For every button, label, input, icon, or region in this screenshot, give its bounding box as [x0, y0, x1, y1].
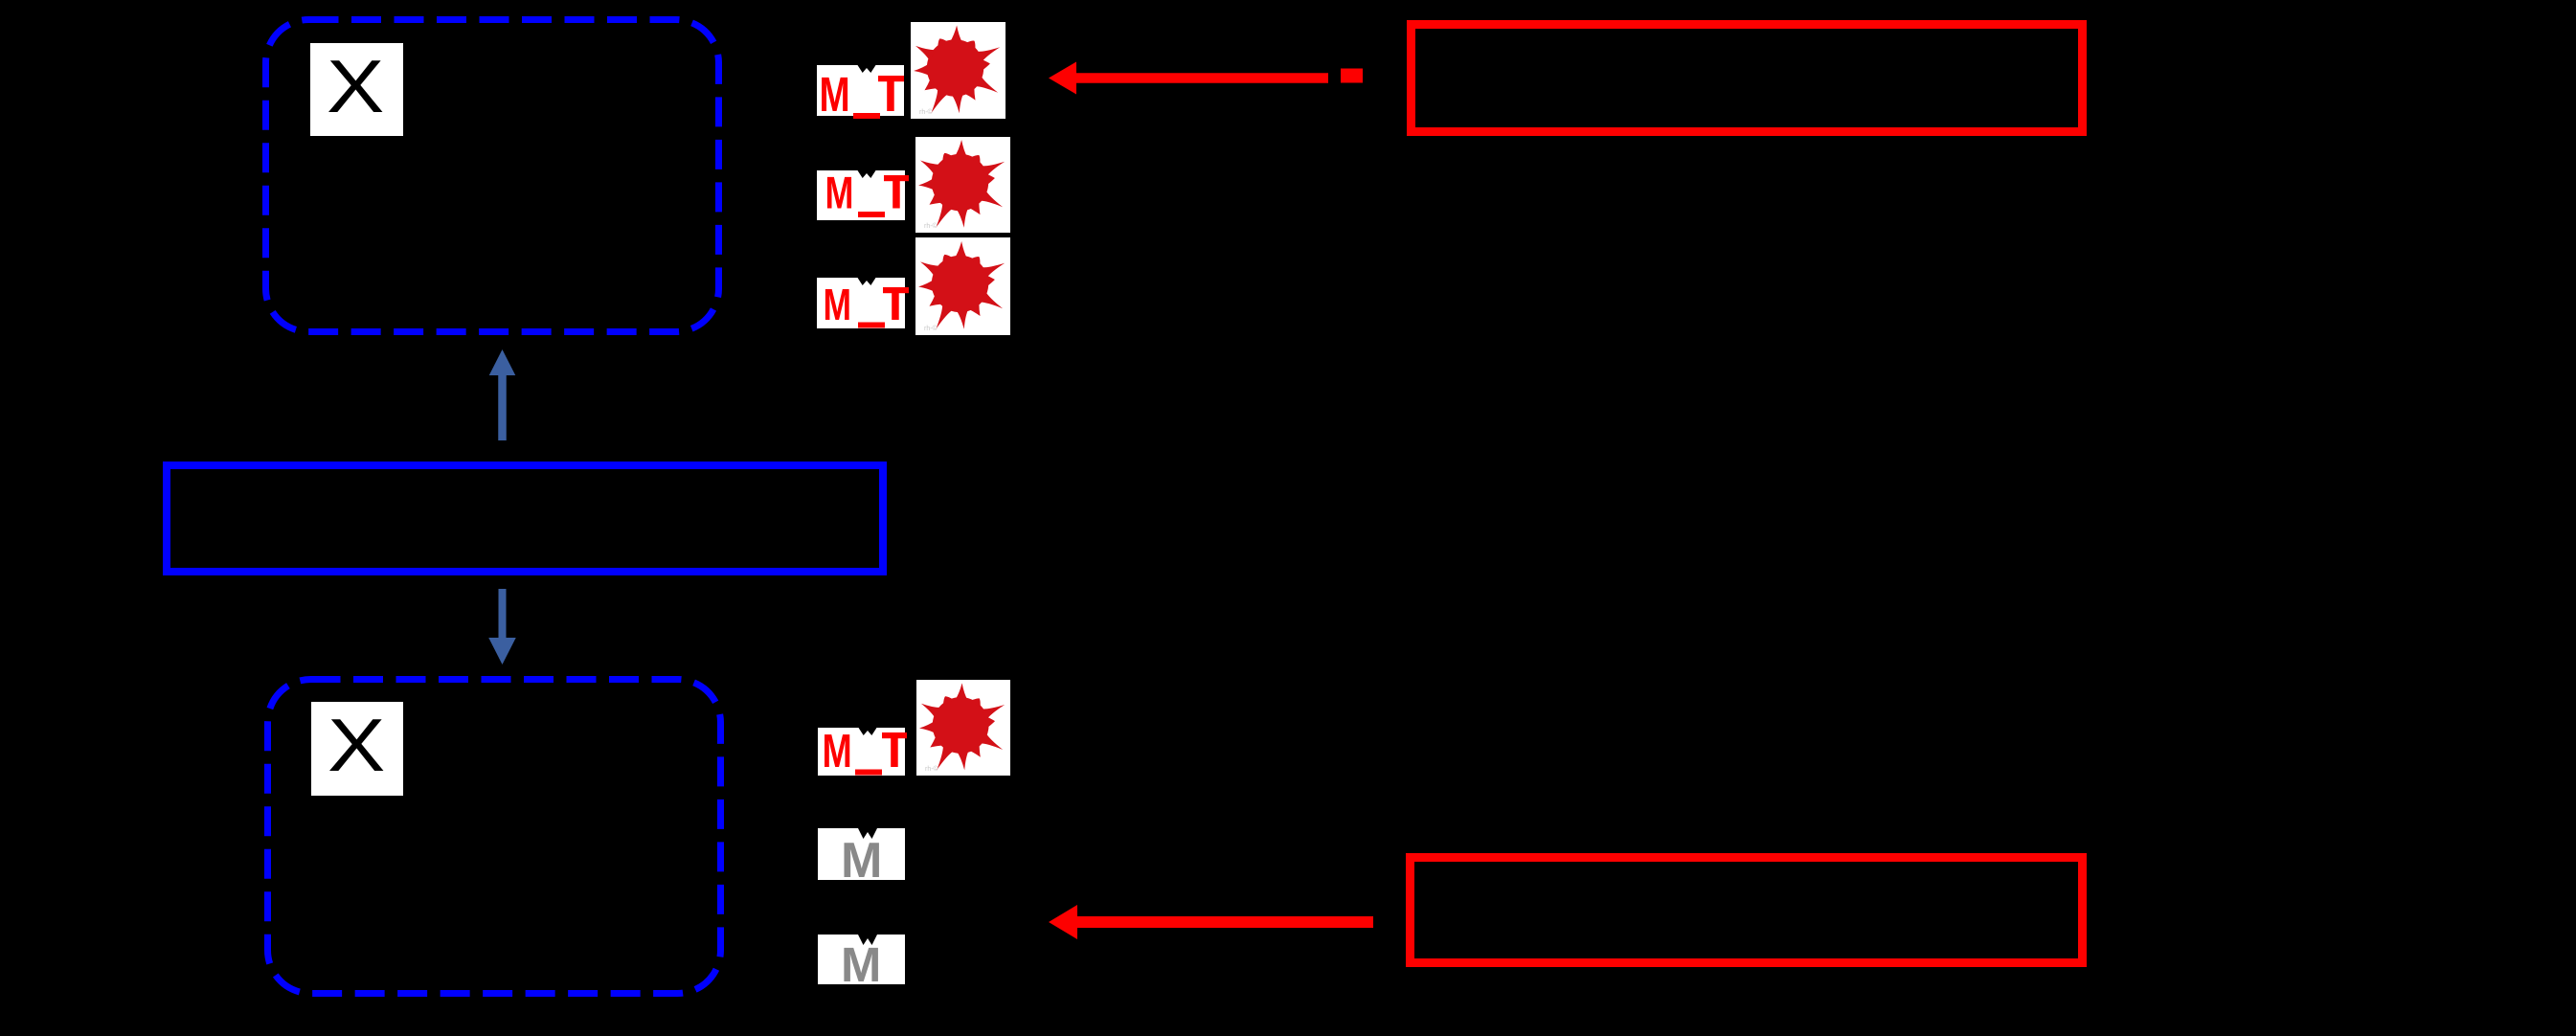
svg-text:M: M: [820, 67, 850, 122]
svg-text:rh-©: rh-©: [919, 108, 934, 116]
svg-text:rh-©: rh-©: [925, 765, 939, 773]
svg-text:M: M: [825, 168, 854, 218]
svg-text:X: X: [327, 45, 384, 128]
svg-text:M: M: [841, 937, 881, 992]
svg-text:M: M: [824, 280, 851, 329]
svg-text:M: M: [841, 833, 882, 889]
svg-text:M: M: [823, 725, 852, 777]
svg-text:rh-©: rh-©: [924, 222, 938, 230]
svg-text:X: X: [328, 704, 385, 787]
svg-text:rh-©: rh-©: [924, 325, 938, 332]
